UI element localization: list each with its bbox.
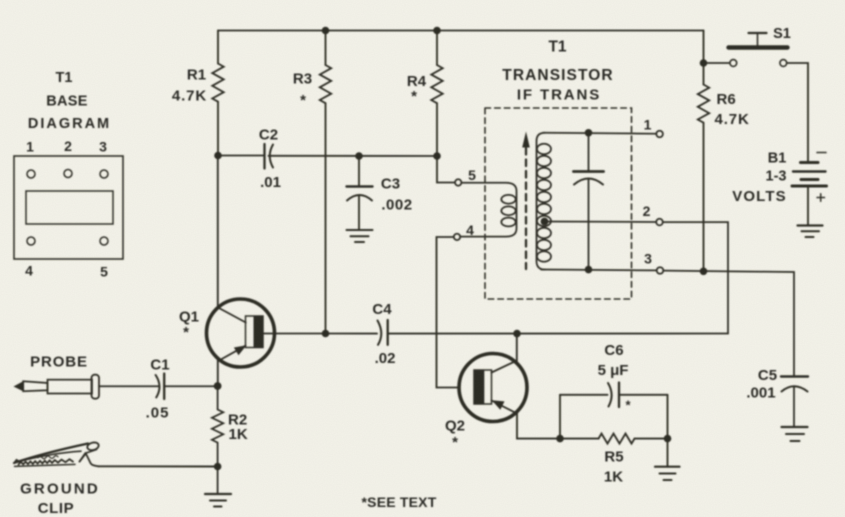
wire node to R6: [703, 63, 705, 85]
wire base node to R2: [217, 386, 219, 410]
wire secondary bottom to pin 3: [541, 269, 657, 272]
wire to ground symbol: [217, 467, 219, 495]
transformer secondary winding: [537, 133, 546, 270]
switch S1 cap: [749, 32, 767, 34]
wire R5 row left: [560, 438, 599, 440]
wire C6 top left: [560, 394, 608, 396]
resistor R3: [320, 65, 331, 103]
T1 base diagram outline: [14, 156, 123, 259]
capacitor C1: [156, 375, 160, 397]
wire pin3 row to C5: [663, 271, 794, 376]
node ground clip junction dot: [214, 463, 222, 471]
resistor R2: [212, 410, 223, 443]
wire R4 top drop: [436, 31, 438, 66]
probe tip: [14, 381, 24, 391]
wire R3 bottom column down to collector line: [325, 103, 327, 333]
transistor Q2: [459, 354, 527, 422]
node secondary top / cap dot: [585, 129, 593, 137]
wire C2 row left segment: [218, 155, 265, 157]
capacitor C4: [378, 321, 382, 345]
battery plus sign: [817, 197, 825, 199]
wire Q2 emitter down: [517, 413, 560, 439]
wire to ground below R5: [667, 439, 669, 467]
node secondary bottom / cap dot: [585, 266, 593, 274]
wire top rail right corner down to S1 node: [703, 31, 705, 64]
wire top supply rail: [218, 30, 704, 32]
wire battery to ground: [807, 188, 809, 226]
node Q2 collector junction dot: [513, 330, 521, 338]
switch S1 stem: [757, 34, 759, 46]
node secondary tap dot: [541, 218, 549, 226]
battery minus sign: [817, 152, 826, 154]
wire tap to pin 2: [545, 221, 657, 224]
transformer core dashed arrow: [525, 148, 527, 269]
terminal pin 1: [656, 131, 663, 138]
capacitor C3: [358, 156, 360, 187]
wire collector line to C4: [326, 333, 378, 335]
capacitor inside T1: [588, 133, 590, 172]
wire Q2 collector up: [516, 334, 518, 362]
node R3 bottom dot: [322, 330, 330, 338]
ground clip: [14, 444, 88, 464]
wire C4 to Q2 collector junction: [388, 333, 728, 335]
wire R1 top drop: [217, 31, 219, 64]
node R4 bottom junction dot: [433, 152, 441, 160]
switch S1 wire from node: [704, 62, 730, 64]
node R5 right dot: [664, 435, 672, 443]
capacitor C6: [608, 383, 612, 407]
wire C1 to base node: [164, 385, 217, 387]
probe needle: [23, 381, 47, 391]
node R3 top dot: [322, 27, 330, 35]
T1 base diagram pin holes: [27, 170, 35, 178]
resistor R5: [599, 434, 635, 444]
resistor R6: [698, 85, 709, 123]
paper noise overlay: [0, 0, 1, 1]
wire C2 row right segment to R4 bottom: [269, 155, 438, 157]
transistor Q1: [207, 299, 275, 367]
wire R2 to ground node: [217, 443, 219, 467]
transformer T1 dashed enclosure: [485, 108, 632, 299]
node C6 left dot: [556, 435, 564, 443]
transformer primary winding: [455, 179, 461, 185]
node S1/R6 junction dot: [700, 59, 708, 67]
node C3 junction dot: [355, 152, 363, 160]
probe body: [48, 380, 93, 394]
node R6 bottom dot: [700, 268, 708, 276]
wire Q1 collector to line: [263, 333, 326, 335]
wire base column down to Q1: [217, 156, 219, 308]
C6 branch right riser: [667, 395, 669, 439]
C6 branch left riser: [559, 395, 561, 439]
T1 base diagram inner window: [26, 191, 113, 224]
ground below C3: [347, 229, 373, 231]
switch S1 right contact: [780, 60, 787, 67]
wire R4 bottom to junction: [436, 103, 438, 156]
wire pin4 to Q2 base column: [437, 237, 460, 388]
wire R3 top drop: [325, 31, 327, 66]
wire R6 bottom to pin3 row: [703, 123, 705, 271]
wire S1 to battery: [787, 63, 808, 161]
wire pin2 to collector line: [663, 222, 728, 333]
ground below R2: [205, 493, 231, 495]
wire secondary top to pin 1: [543, 132, 656, 135]
node R4 top dot: [433, 27, 441, 35]
wire ground clip to junction: [99, 465, 218, 467]
wire R1 bottom to base node: [217, 102, 219, 156]
wire C6 top right: [619, 394, 668, 396]
probe collar: [92, 375, 100, 399]
ground below R5/C6: [655, 466, 680, 468]
wire Q1 emitter down: [217, 360, 219, 387]
wire R5 row right: [635, 438, 668, 440]
capacitor C5: [781, 375, 808, 377]
node R1-C2 junction dot: [214, 152, 222, 160]
wire R4 bottom to pin 5: [437, 156, 455, 183]
battery B1 plates: [801, 161, 819, 164]
terminal pin 3: [657, 267, 664, 274]
node C1/R2 junction dot: [214, 382, 222, 390]
ground below C5: [782, 426, 808, 428]
resistor R1: [212, 64, 223, 102]
ground below battery: [798, 224, 823, 226]
terminal pin 2: [656, 219, 663, 226]
wire probe to C1: [99, 385, 159, 387]
switch S1 left contact: [730, 60, 737, 67]
capacitor C2: [263, 144, 265, 169]
resistor R4: [431, 65, 442, 103]
switch S1 bar: [729, 45, 788, 49]
